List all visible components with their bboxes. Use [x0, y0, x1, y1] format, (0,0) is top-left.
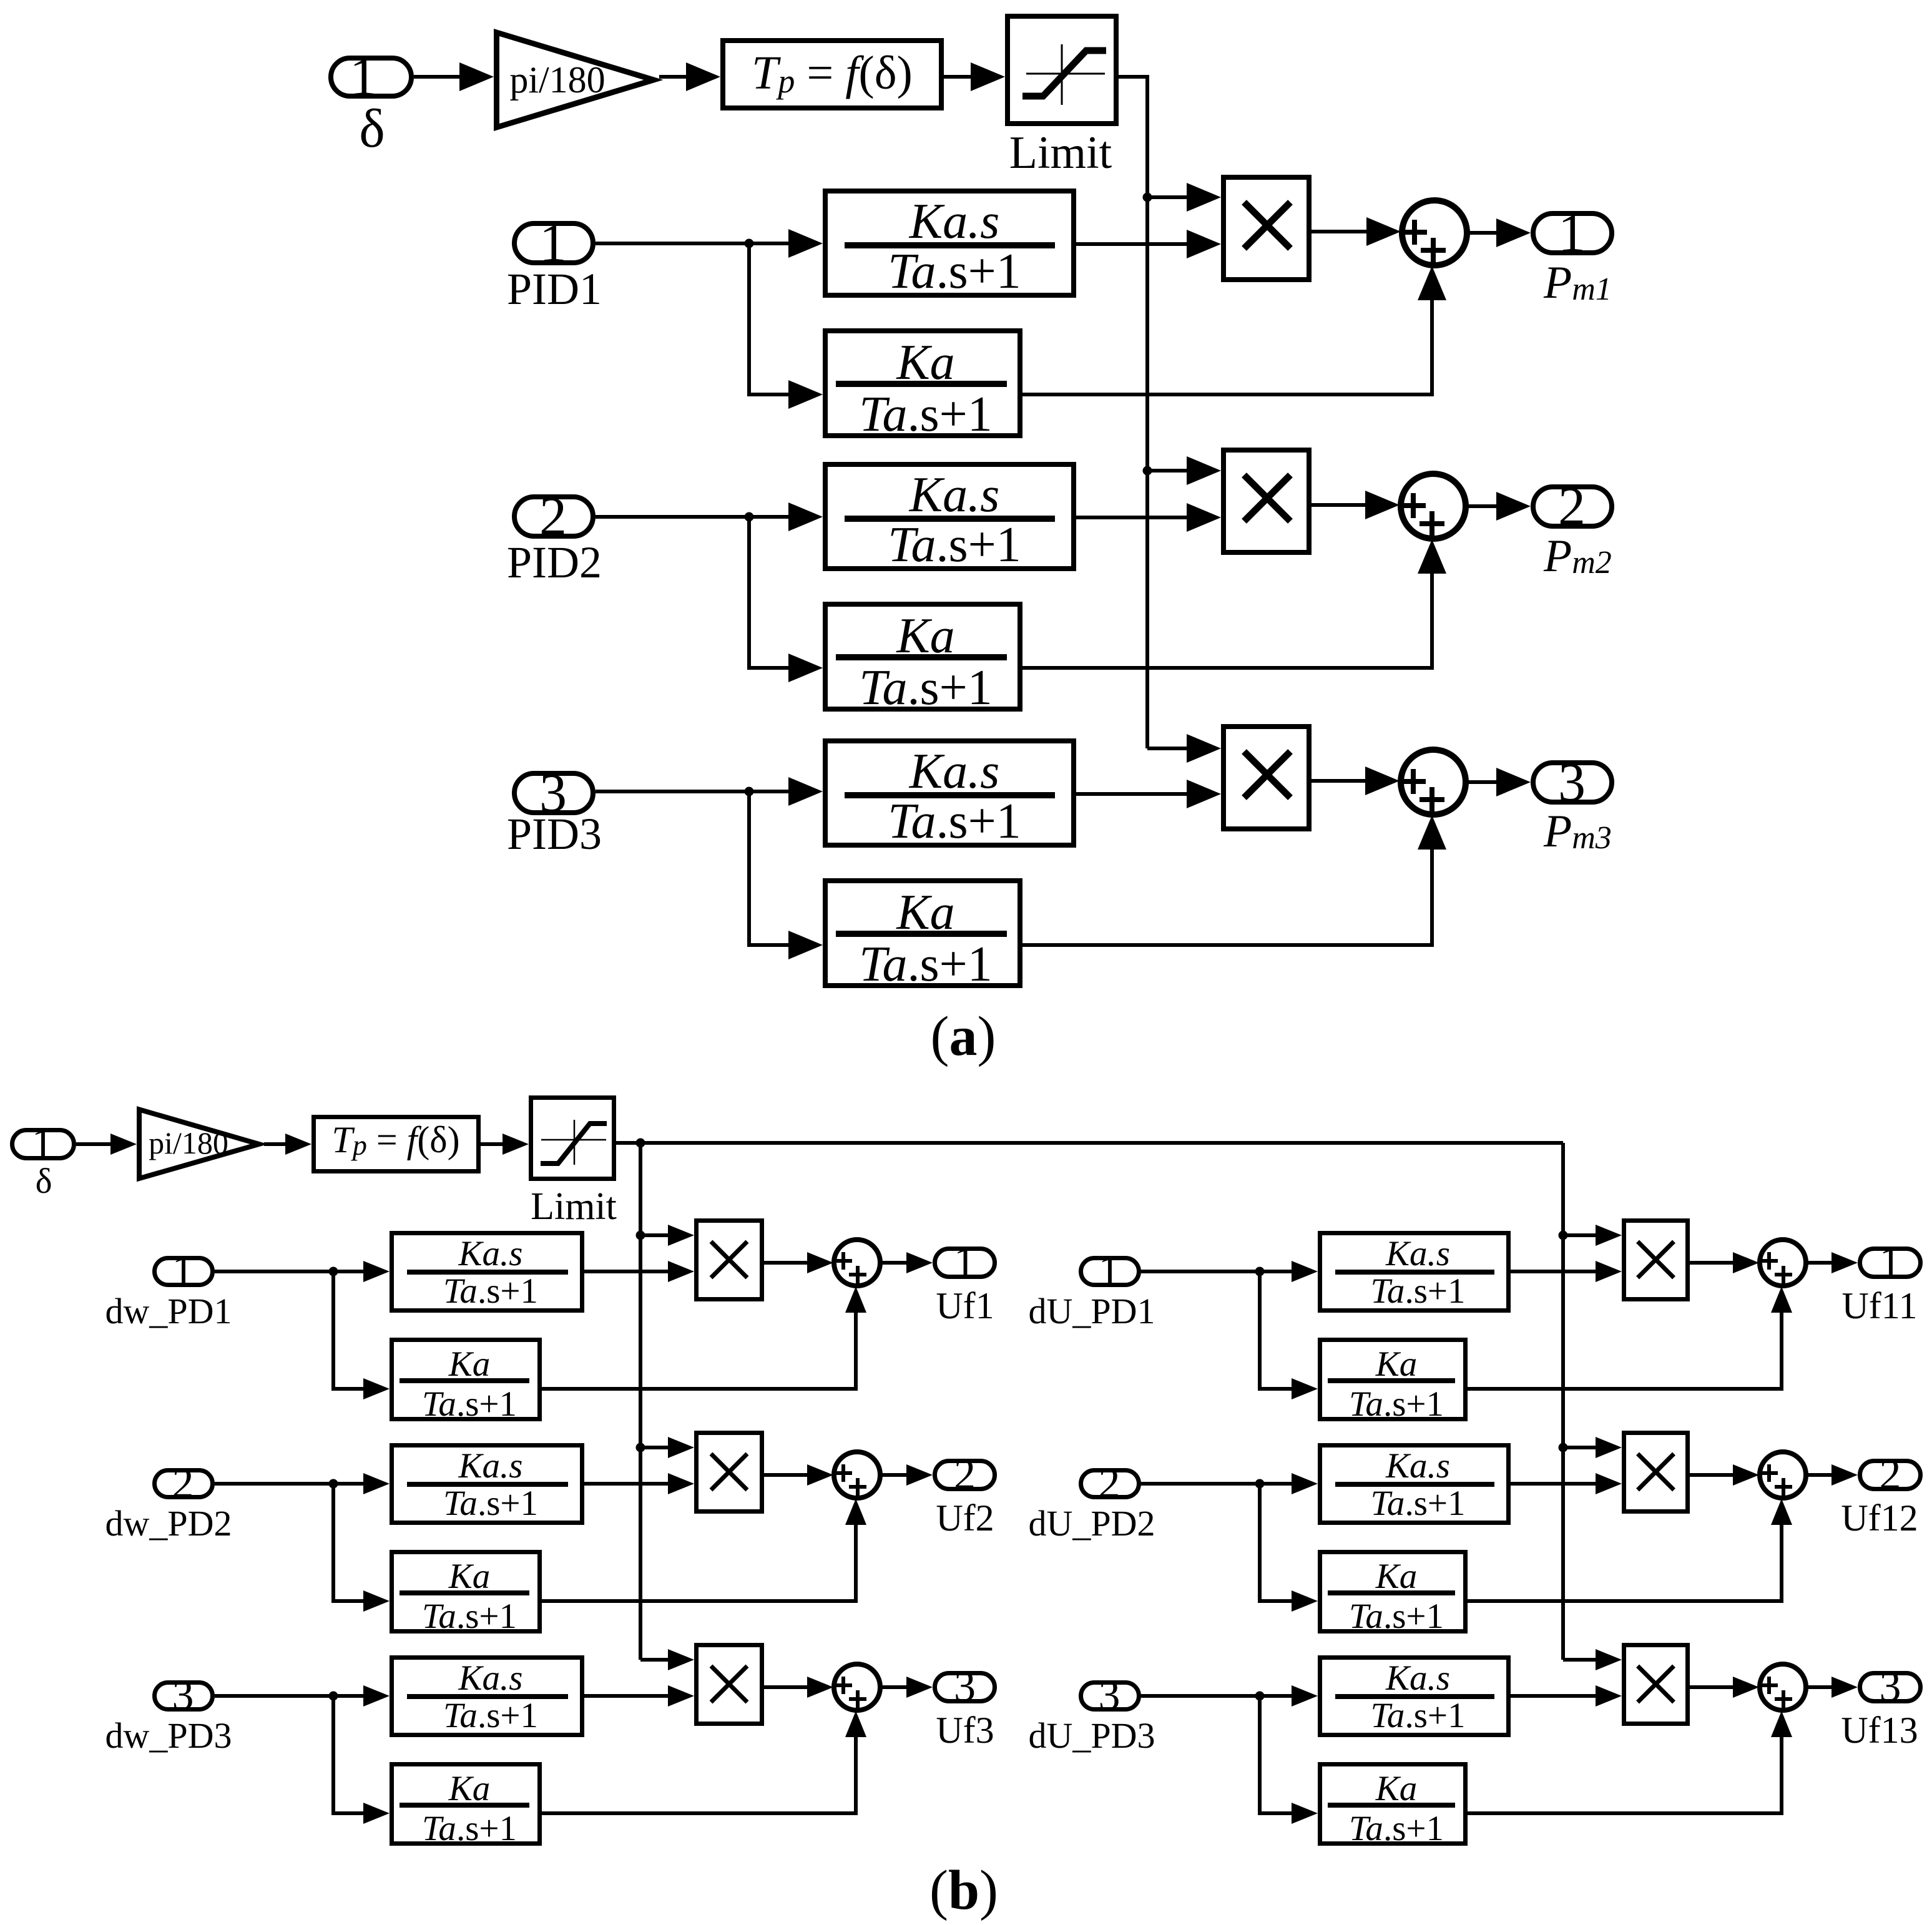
arrowhead into output port row2 (b-right)	[1831, 1464, 1858, 1486]
part (a) input port 3 (PID3)	[514, 763, 593, 824]
svg-text:3: 3	[172, 1672, 194, 1720]
saturation block Limit (a)	[1008, 16, 1116, 124]
part (b) input port 3 (dU_PD3)	[1081, 1672, 1139, 1720]
svg-text:Ka.s: Ka.s	[1385, 1234, 1450, 1273]
junction node dw_PD3	[329, 1692, 338, 1701]
svg-text:dw_PD1: dw_PD1	[105, 1291, 232, 1331]
junction node spine row2 (a)	[1143, 466, 1152, 476]
junction node PID2	[745, 512, 754, 522]
wire branch dw_PD3 down to Ka block	[333, 1696, 366, 1813]
wire sum to output row1 (a)	[1467, 231, 1498, 235]
arrowhead into gain (b)	[110, 1134, 137, 1155]
arrowhead into Ka.s block row2 (a)	[788, 502, 823, 531]
arrowhead into Ka row1 (b-left)	[363, 1378, 390, 1399]
svg-text:Ka: Ka	[448, 1769, 491, 1808]
wire gain to Tp block (a)	[659, 75, 690, 79]
product block row1 (a)	[1223, 177, 1309, 280]
product block row2 (b-left)	[697, 1433, 762, 1512]
transfer block Ka.s/(Ta.s+1) row3 (a)	[825, 741, 1074, 849]
svg-text:(a): (a)	[931, 1006, 996, 1067]
svg-text:Ka.s: Ka.s	[909, 744, 1000, 799]
svg-text:Uf2: Uf2	[936, 1497, 994, 1539]
svg-text:2: 2	[1099, 1459, 1120, 1507]
wire X to sum row3 (b-right)	[1690, 1685, 1742, 1689]
arrowhead sum bottom input row1 (a)	[1418, 266, 1446, 300]
wire product to sum row2 (a)	[1312, 503, 1370, 507]
arrowhead into Ka.s block row1 (a)	[788, 229, 823, 258]
gain block pi/180 (b)	[139, 1110, 259, 1179]
svg-text:2: 2	[172, 1459, 194, 1507]
svg-text:Ka.s: Ka.s	[909, 194, 1000, 249]
sum block row3 (a)	[1401, 750, 1466, 815]
part (a) input port 1 (delta)	[331, 47, 411, 107]
junction node dU_PD3	[1255, 1692, 1265, 1701]
product block row3 (b-left)	[697, 1645, 762, 1724]
product block row2 (a)	[1223, 450, 1309, 552]
function block Tp = f(delta) (a)	[723, 41, 941, 108]
wire sum to output row2 (a)	[1466, 504, 1498, 508]
arrowhead product upper input row1 (a)	[1187, 183, 1221, 212]
arrowhead into sum row3 (a)	[1365, 767, 1400, 795]
svg-text:pi/180: pi/180	[149, 1125, 228, 1160]
arrowhead into output port row3 (a)	[1496, 768, 1531, 796]
wire spine to X upper row1 (b-right)	[1563, 1233, 1599, 1237]
svg-text:Ta.s+1: Ta.s+1	[443, 1484, 538, 1523]
svg-text:Ka.s: Ka.s	[909, 468, 1000, 522]
svg-text:Ta.s+1: Ta.s+1	[1370, 1271, 1465, 1311]
product block row1 (b-left)	[697, 1221, 762, 1300]
function block Tp = f(delta) (b)	[314, 1117, 479, 1172]
wire Ka.s output to X row2 (b-left)	[584, 1482, 671, 1486]
arrowhead sum bottom input row3 (b-right)	[1771, 1711, 1792, 1737]
part (b) input port 1 (dU_PD1)	[1081, 1247, 1139, 1295]
wire spine to product row2 (a)	[1147, 469, 1189, 473]
svg-text:Uf3: Uf3	[936, 1710, 994, 1751]
part (a) input port 1 (PID1)	[514, 213, 593, 274]
arrowhead product upper input row2 (a)	[1187, 456, 1221, 485]
svg-text:1: 1	[1099, 1247, 1120, 1295]
arrowhead X lower input row2 (b-left)	[668, 1473, 694, 1494]
sum block row3 (b-left)	[834, 1664, 880, 1710]
svg-text:Ta.s+1: Ta.s+1	[859, 937, 992, 992]
wire branch dU_PD2 down to Ka block	[1260, 1484, 1295, 1601]
wire dw_PD3 to Ka.s block	[215, 1694, 366, 1698]
arrowhead X upper input row1 (b-right)	[1596, 1225, 1622, 1246]
arrowhead into Limit (b)	[503, 1134, 529, 1155]
arrowhead into Ka row3 (b-right)	[1292, 1803, 1318, 1824]
wire sum to output row2 (b-right)	[1806, 1473, 1839, 1477]
sum block row2 (a)	[1401, 474, 1466, 539]
wire dw_PD2 to Ka.s block	[215, 1482, 366, 1486]
wire dw_PD1 to Ka.s block	[215, 1270, 366, 1273]
junction node dw_PD1	[329, 1267, 338, 1276]
svg-text:Ta.s+1: Ta.s+1	[422, 1809, 517, 1848]
arrowhead sum bottom input row3 (b-left)	[845, 1711, 866, 1737]
arrowhead into sum row2 (b-left)	[807, 1464, 833, 1486]
left spine wire (b)	[639, 1143, 642, 1660]
arrowhead into Ka.s row3 (b-left)	[363, 1685, 390, 1707]
arrowhead into Tp block (a)	[686, 62, 720, 91]
wire Tp to Limit (b)	[481, 1142, 506, 1146]
svg-text:Ka: Ka	[1375, 1345, 1418, 1384]
junction node spine row1 (b-right)	[1559, 1231, 1568, 1240]
junction node PID1	[745, 239, 754, 248]
arrowhead product lower input row3 (a)	[1187, 780, 1221, 808]
wire sum to output row1 (b-left)	[880, 1261, 914, 1265]
arrowhead X upper input row2 (b-left)	[668, 1437, 694, 1458]
wire X to sum row2 (b-left)	[764, 1473, 816, 1477]
wire Ka output to sum row2 (b-right)	[1468, 1521, 1782, 1601]
wire PID3 to Ka.s block	[596, 790, 788, 793]
svg-text:Ka: Ka	[1375, 1557, 1418, 1596]
sum block row2 (b-left)	[834, 1452, 880, 1498]
arrowhead product lower input row1 (a)	[1187, 230, 1221, 258]
svg-text:1: 1	[172, 1247, 194, 1295]
wire branch PID2 down to Ka block	[749, 517, 788, 668]
svg-text:3: 3	[1880, 1663, 1901, 1711]
part (b) output port 3 (Uf3)	[935, 1663, 995, 1711]
arrowhead into output port row3 (b-left)	[906, 1677, 933, 1698]
junction node dU_PD2	[1255, 1479, 1265, 1489]
svg-text:Ka.s: Ka.s	[1385, 1446, 1450, 1486]
part (b) input port 3 (dw_PD3)	[155, 1672, 213, 1720]
wire Tp to Limit (a)	[944, 75, 974, 79]
transfer block Ka.s/(Ta.s+1) row3 (b-left)	[392, 1658, 582, 1736]
transfer block Ka/(Ta.s+1) row3 (a)	[825, 881, 1020, 992]
svg-text:Uf1: Uf1	[936, 1285, 994, 1326]
arrowhead into sum row3 (b-left)	[807, 1677, 833, 1698]
wire sum to output row3 (a)	[1466, 780, 1498, 784]
arrowhead X lower input row3 (b-right)	[1596, 1685, 1622, 1707]
svg-text:dw_PD2: dw_PD2	[105, 1503, 232, 1544]
arrowhead sum bottom input row2 (a)	[1418, 539, 1446, 574]
wire Ka output to sum row2 (a)	[1022, 569, 1432, 668]
wire branch dU_PD3 down to Ka block	[1260, 1696, 1295, 1813]
arrowhead into output port row1 (b-left)	[906, 1252, 933, 1273]
arrowhead sum bottom input row2 (b-left)	[845, 1499, 866, 1525]
part (a) output port 2 (Pm2)	[1533, 477, 1612, 537]
wire branch PID1 down to Ka block	[749, 243, 788, 394]
arrowhead into Ka block row2 (a)	[788, 654, 823, 682]
wire spine to X upper row3 (b-right)	[1563, 1658, 1599, 1662]
svg-text:Uf13: Uf13	[1841, 1710, 1918, 1751]
arrowhead into Tp block (b)	[285, 1134, 311, 1155]
svg-text:Ka.s: Ka.s	[458, 1446, 523, 1486]
arrowhead sum bottom input row2 (b-right)	[1771, 1499, 1792, 1525]
transfer block Ka/(Ta.s+1) row2 (a)	[825, 604, 1020, 715]
wire branch dU_PD1 down to Ka block	[1260, 1271, 1295, 1389]
transfer block Ka.s/(Ta.s+1) row1 (b-left)	[392, 1233, 582, 1311]
wire Ka.s output to product row1 (a)	[1076, 242, 1189, 246]
sum block row1 (b-right)	[1760, 1240, 1806, 1286]
part (b) input port 1 (delta)	[12, 1120, 74, 1168]
transfer block Ka/(Ta.s+1) row2 (b-right)	[1320, 1552, 1466, 1637]
wire spine to X upper row3 (b-left)	[640, 1658, 671, 1662]
svg-text:Ka.s: Ka.s	[458, 1234, 523, 1273]
junction node spine row2 (b-left)	[636, 1443, 645, 1452]
arrowhead sum bottom input row1 (b-left)	[845, 1286, 866, 1313]
svg-text:Tp = f(δ): Tp = f(δ)	[752, 47, 913, 100]
svg-text:Ta.s+1: Ta.s+1	[859, 387, 992, 442]
svg-text:Ta.s+1: Ta.s+1	[1370, 1696, 1465, 1735]
part (b) output port 2 (Uf12)	[1860, 1451, 1921, 1499]
arrowhead into Ka block row3 (a)	[788, 931, 823, 959]
arrowhead into Ka block row1 (a)	[788, 380, 823, 409]
arrowhead into sum row1 (b-right)	[1733, 1252, 1759, 1273]
svg-text:3: 3	[954, 1663, 976, 1711]
arrowhead into Ka.s row3 (b-right)	[1292, 1685, 1318, 1707]
wire Ka.s output to X row3 (b-right)	[1511, 1694, 1599, 1698]
part (a) output port 1 (Pm1)	[1533, 203, 1612, 264]
wire Limit output across top (b)	[616, 1141, 1563, 1145]
svg-text:Ta.s+1: Ta.s+1	[422, 1384, 517, 1424]
transfer block Ka.s/(Ta.s+1) row2 (b-left)	[392, 1446, 582, 1524]
svg-text:pi/180: pi/180	[509, 59, 605, 100]
wire Ka output to sum row3 (b-right)	[1468, 1733, 1782, 1813]
arrowhead X lower input row1 (b-right)	[1596, 1261, 1622, 1282]
svg-text:1: 1	[1880, 1238, 1901, 1286]
arrowhead into output port row2 (a)	[1496, 492, 1531, 521]
arrowhead X lower input row2 (b-right)	[1596, 1473, 1622, 1494]
wire spine to X upper row1 (b-left)	[640, 1233, 671, 1237]
wire sum to output row3 (b-right)	[1806, 1685, 1839, 1689]
svg-text:Ta.s+1: Ta.s+1	[1349, 1597, 1444, 1636]
arrowhead into gain (a)	[459, 62, 494, 91]
gain block pi/180 (a)	[497, 32, 654, 127]
transfer block Ka.s/(Ta.s+1) row2 (b-right)	[1320, 1446, 1509, 1524]
wire Ka output to sum row1 (b-left)	[542, 1309, 856, 1389]
wire spine to product row3 (a)	[1147, 747, 1189, 750]
wire branch dw_PD1 down to Ka block	[333, 1271, 366, 1389]
svg-text:2: 2	[1558, 477, 1586, 537]
arrowhead into Ka row1 (b-right)	[1292, 1378, 1318, 1399]
wire X to sum row1 (b-right)	[1690, 1261, 1742, 1265]
wire dU_PD2 to Ka.s block	[1141, 1482, 1295, 1486]
arrowhead into sum row1 (b-left)	[807, 1252, 833, 1273]
wire Ka output to sum row3 (b-left)	[542, 1733, 856, 1813]
svg-text:Ta.s+1: Ta.s+1	[1349, 1809, 1444, 1848]
wire X to sum row1 (b-left)	[764, 1261, 816, 1265]
arrowhead into Limit (a)	[971, 62, 1005, 91]
svg-text:Ta.s+1: Ta.s+1	[443, 1271, 538, 1311]
junction node dU_PD1	[1255, 1267, 1265, 1276]
arrowhead product lower input row2 (a)	[1187, 503, 1221, 532]
arrowhead into Ka row2 (b-right)	[1292, 1590, 1318, 1612]
svg-text:Ta.s+1: Ta.s+1	[1370, 1484, 1465, 1523]
svg-text:Ta.s+1: Ta.s+1	[888, 244, 1021, 299]
svg-text:Uf11: Uf11	[1841, 1285, 1917, 1326]
wire Ka.s output to X row3 (b-left)	[584, 1694, 671, 1698]
wire Ka output to sum row1 (a)	[1022, 296, 1432, 394]
wire Ka output to sum row1 (b-right)	[1468, 1309, 1782, 1389]
product block row2 (b-right)	[1624, 1433, 1688, 1512]
svg-text:δ: δ	[359, 99, 385, 159]
arrowhead into output port row2 (b-left)	[906, 1464, 933, 1486]
wire dU_PD1 to Ka.s block	[1141, 1270, 1295, 1273]
arrowhead X upper input row1 (b-left)	[668, 1225, 694, 1246]
right spine wire (b)	[1561, 1143, 1565, 1660]
transfer block Ka/(Ta.s+1) row2 (b-left)	[392, 1552, 540, 1637]
wire X to sum row2 (b-right)	[1690, 1473, 1742, 1477]
arrowhead X lower input row3 (b-left)	[668, 1685, 694, 1707]
junction node after Limit (b)	[636, 1139, 645, 1148]
svg-text:Ka: Ka	[1375, 1769, 1418, 1808]
transfer block Ka.s/(Ta.s+1) row1 (b-right)	[1320, 1233, 1509, 1311]
arrowhead into sum row3 (b-right)	[1733, 1677, 1759, 1698]
sum block row3 (b-right)	[1760, 1664, 1806, 1710]
part (b) output port 3 (Uf13)	[1860, 1663, 1921, 1711]
part (a) output port 3 (Pm3)	[1533, 753, 1612, 813]
svg-text:Ta.s+1: Ta.s+1	[1349, 1384, 1444, 1424]
arrowhead into output port row1 (a)	[1496, 218, 1531, 247]
wire gain to Tp block (b)	[264, 1142, 288, 1146]
svg-text:Ka.s: Ka.s	[458, 1658, 523, 1698]
wire Limit output down the spine (a)	[1119, 77, 1147, 748]
wire branch dw_PD2 down to Ka block	[333, 1484, 366, 1601]
arrowhead X upper input row3 (b-right)	[1596, 1649, 1622, 1670]
transfer block Ka/(Ta.s+1) row1 (b-right)	[1320, 1340, 1466, 1424]
arrowhead into sum row1 (a)	[1366, 217, 1401, 246]
junction node spine row1 (b-left)	[636, 1231, 645, 1240]
arrowhead into Ka.s row2 (b-left)	[363, 1473, 390, 1494]
wire branch PID3 down to Ka block	[749, 791, 788, 945]
arrowhead into Ka.s block row3 (a)	[788, 777, 823, 806]
junction node spine row1 (a)	[1143, 193, 1152, 202]
part (b) input port 2 (dw_PD2)	[155, 1459, 213, 1507]
junction node spine row2 (b-right)	[1559, 1443, 1568, 1452]
wire Ka.s output to product row2 (a)	[1076, 516, 1189, 519]
part (b) output port 2 (Uf2)	[935, 1451, 995, 1499]
wire Ka output to sum row2 (b-left)	[542, 1521, 856, 1601]
svg-text:dU_PD3: dU_PD3	[1028, 1715, 1155, 1756]
arrowhead into Ka row2 (b-left)	[363, 1590, 390, 1612]
product block row1 (b-right)	[1624, 1221, 1688, 1300]
sum block row1 (b-left)	[834, 1240, 880, 1286]
svg-text:dw_PD3: dw_PD3	[105, 1715, 232, 1756]
arrowhead into Ka.s row1 (b-left)	[363, 1261, 390, 1282]
svg-text:PID2: PID2	[507, 537, 602, 587]
part (b) output port 1 (Uf11)	[1860, 1238, 1921, 1286]
part (a) input port 2 (PID2)	[514, 487, 593, 547]
svg-text:1: 1	[32, 1120, 54, 1168]
part (b) input port 1 (dw_PD1)	[155, 1247, 213, 1295]
sum block row2 (b-right)	[1760, 1452, 1806, 1498]
part (b) output port 1 (Uf1)	[935, 1238, 995, 1286]
svg-text:dU_PD1: dU_PD1	[1028, 1291, 1155, 1331]
svg-text:Ta.s+1: Ta.s+1	[888, 517, 1021, 572]
svg-text:dU_PD2: dU_PD2	[1028, 1503, 1155, 1544]
wire spine to product row1 (a)	[1147, 195, 1189, 199]
transfer block Ka.s/(Ta.s+1) row3 (b-right)	[1320, 1658, 1509, 1736]
svg-text:Ta.s+1: Ta.s+1	[888, 794, 1021, 849]
sum block row1 (a)	[1402, 200, 1467, 265]
arrowhead into sum row2 (b-right)	[1733, 1464, 1759, 1486]
arrowhead into output port row1 (b-right)	[1831, 1252, 1858, 1273]
wire PID1 to Ka.s block	[596, 242, 788, 245]
transfer block Ka/(Ta.s+1) row1 (b-left)	[392, 1340, 540, 1424]
wire sum to output row2 (b-left)	[880, 1473, 914, 1477]
wire dU_PD3 to Ka.s block	[1141, 1694, 1295, 1698]
wire Ka.s output to product row3 (a)	[1076, 792, 1189, 796]
arrowhead into sum row2 (a)	[1365, 491, 1400, 519]
wire Ka.s output to X row2 (b-right)	[1511, 1482, 1599, 1486]
saturation block Limit (b)	[531, 1098, 614, 1179]
svg-text:Ka: Ka	[448, 1345, 491, 1384]
svg-text:3: 3	[1099, 1672, 1120, 1720]
svg-text:PID3: PID3	[507, 809, 602, 859]
wire spine to X upper row2 (b-right)	[1563, 1446, 1599, 1449]
svg-text:Ta.s+1: Ta.s+1	[443, 1696, 538, 1735]
svg-text:δ: δ	[36, 1162, 52, 1201]
arrowhead sum bottom input row1 (b-right)	[1771, 1286, 1792, 1313]
svg-text:Tp = f(δ): Tp = f(δ)	[331, 1119, 459, 1161]
svg-text:2: 2	[1880, 1451, 1901, 1499]
svg-text:2: 2	[954, 1451, 976, 1499]
wire product to sum row3 (a)	[1312, 779, 1370, 783]
svg-text:Ta.s+1: Ta.s+1	[422, 1597, 517, 1636]
svg-text:Limit: Limit	[1009, 127, 1112, 179]
wire Ka.s output to X row1 (b-right)	[1511, 1270, 1599, 1273]
transfer block Ka.s/(Ta.s+1) row1 (a)	[825, 191, 1074, 299]
arrowhead sum bottom input row3 (a)	[1418, 815, 1446, 850]
arrowhead into Ka.s row2 (b-right)	[1292, 1473, 1318, 1494]
wire PID2 to Ka.s block	[596, 515, 788, 519]
wire Ka.s output to X row1 (b-left)	[584, 1270, 671, 1273]
part (b) input port 2 (dU_PD2)	[1081, 1459, 1139, 1507]
wire spine to X upper row2 (b-left)	[640, 1446, 671, 1449]
svg-text:(b): (b)	[929, 1859, 998, 1921]
arrowhead product upper input row3 (a)	[1187, 734, 1221, 763]
wire product to sum row1 (a)	[1312, 230, 1370, 233]
svg-text:Ka.s: Ka.s	[1385, 1658, 1450, 1698]
transfer block Ka/(Ta.s+1) row3 (b-left)	[392, 1765, 540, 1849]
arrowhead X lower input row1 (b-left)	[668, 1261, 694, 1282]
product block row3 (b-right)	[1624, 1645, 1688, 1724]
arrowhead into Ka.s row1 (b-right)	[1292, 1261, 1318, 1282]
svg-text:3: 3	[1558, 753, 1586, 813]
svg-text:Limit: Limit	[531, 1185, 617, 1228]
svg-text:1: 1	[1558, 203, 1586, 264]
wire X to sum row3 (b-left)	[764, 1685, 816, 1689]
product block row3 (a)	[1223, 727, 1309, 829]
junction node dw_PD2	[329, 1479, 338, 1489]
arrowhead into Ka row3 (b-left)	[363, 1803, 390, 1824]
transfer block Ka.s/(Ta.s+1) row2 (a)	[825, 464, 1074, 572]
wire sum to output row3 (b-left)	[880, 1685, 914, 1689]
svg-text:Uf12: Uf12	[1841, 1497, 1918, 1539]
svg-text:Ka: Ka	[448, 1557, 491, 1596]
wire input1 to gain (a)	[414, 75, 465, 79]
svg-text:PID1: PID1	[507, 264, 602, 314]
wire sum to output row1 (b-right)	[1806, 1261, 1839, 1265]
wire input1 to gain (b)	[76, 1142, 114, 1146]
transfer block Ka/(Ta.s+1) row1 (a)	[825, 331, 1020, 442]
arrowhead X upper input row2 (b-right)	[1596, 1437, 1622, 1458]
arrowhead into output port row3 (b-right)	[1831, 1677, 1858, 1698]
transfer block Ka/(Ta.s+1) row3 (b-right)	[1320, 1765, 1466, 1849]
svg-text:1: 1	[954, 1238, 976, 1286]
svg-text:Ta.s+1: Ta.s+1	[859, 660, 992, 715]
wire Ka output to sum row3 (a)	[1022, 845, 1432, 945]
junction node PID3	[745, 787, 754, 796]
arrowhead X upper input row3 (b-left)	[668, 1649, 694, 1670]
